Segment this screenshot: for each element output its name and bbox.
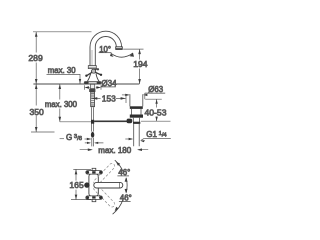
- G3/8 nipple (dark cone): [91, 132, 94, 138]
- svg-text:153: 153: [102, 93, 116, 103]
- dim 40-53: [145, 98, 162, 100]
- spout nozzle: [116, 47, 123, 50]
- top view body capsule: [89, 174, 98, 196]
- dashed spout rotated up 46: [93, 162, 116, 186]
- top view handle lower bar: [86, 196, 103, 202]
- dim 289 vertical line: [35, 32, 37, 84]
- dim 350 vertical line: [35, 84, 37, 132]
- O63 leader arrows: [122, 94, 129, 96]
- drain flange dark: [130, 115, 143, 118]
- spout column mid line: [91, 50, 93, 65]
- svg-text:46°: 46°: [120, 193, 132, 202]
- tube tail: [92, 138, 94, 147]
- dim 153: [92, 97, 125, 99]
- svg-text:40-53: 40-53: [145, 107, 167, 117]
- escutcheon base: [84, 82, 101, 84]
- svg-text:G1 1/4: G1 1/4: [146, 130, 167, 139]
- lever joint blob at centerline: [91, 120, 94, 124]
- faucet cross handle: [85, 68, 102, 77]
- drain cylinder: [130, 94, 143, 106]
- drain stem: [133, 118, 139, 122]
- ext line spout top (289 reference): [33, 31, 92, 33]
- ext line 350 bottom: [31, 131, 55, 133]
- top view handle upper bar: [86, 168, 103, 174]
- lever to drain (dark): [94, 120, 127, 122]
- svg-text:max. 180: max. 180: [98, 146, 131, 155]
- dim max.300 vertical line: [59, 84, 61, 122]
- dim O34 arrows under deck: [84, 85, 101, 90]
- swivel arc lower segment: [113, 199, 124, 214]
- supply tube below shank: [92, 107, 94, 131]
- svg-text:350: 350: [30, 107, 45, 117]
- dashed spout rotated down 46: [93, 184, 116, 208]
- 10deg swivel arc arrow under nozzle: [111, 53, 133, 57]
- left knob dark: [84, 182, 89, 187]
- swivel arc upper segment: [115, 160, 123, 172]
- faucet body bell: [87, 73, 100, 82]
- swivel arc middle segment: [125, 178, 128, 192]
- left arrow at pipe bottom: [125, 138, 132, 140]
- rod dia tick arrows: [85, 142, 104, 144]
- svg-text:194: 194: [133, 59, 148, 69]
- svg-text:G 3/8: G 3/8: [66, 133, 82, 142]
- svg-text:max. 30: max. 30: [48, 66, 76, 75]
- threaded shank: [91, 92, 95, 107]
- drain pipe threaded: [134, 124, 140, 146]
- svg-text:Ø63: Ø63: [148, 85, 163, 94]
- dim 165 ext lines: [71, 169, 91, 199]
- dim max.180: [80, 149, 149, 151]
- svg-text:289: 289: [28, 53, 43, 63]
- svg-text:46°: 46°: [118, 168, 130, 177]
- dim 194 vertical line: [139, 49, 141, 84]
- faucet collar: [88, 66, 96, 69]
- ext line nozzle outlet (194 reference): [123, 48, 143, 50]
- spout gooseneck arc: [90, 31, 122, 65]
- svg-text:165: 165: [69, 180, 84, 190]
- drain neck: [132, 109, 141, 115]
- locknut below deck: [91, 84, 95, 88]
- dim 165 line: [75, 169, 77, 199]
- drain plug dark band: [130, 106, 143, 109]
- deck line: [33, 83, 139, 85]
- lever knob at drain: [127, 119, 133, 124]
- svg-text:max. 300: max. 300: [45, 100, 78, 109]
- top view spout tube solid: [94, 182, 123, 188]
- pop-up lever horizontal line: [60, 121, 127, 123]
